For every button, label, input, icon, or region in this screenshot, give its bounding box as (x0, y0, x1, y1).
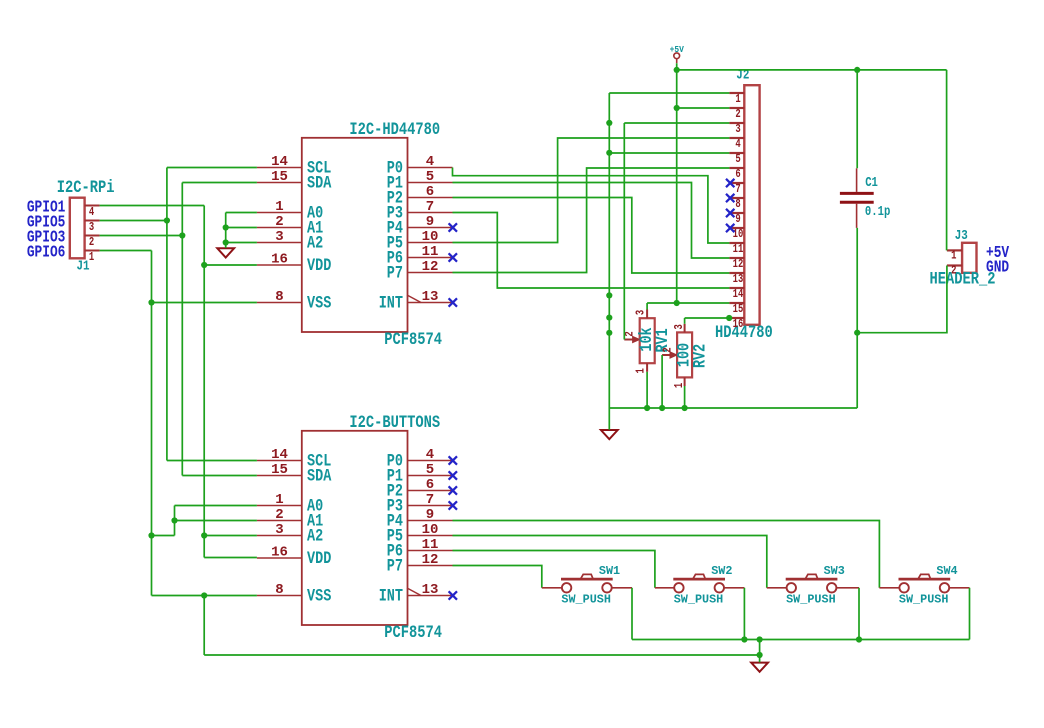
reference SW4 (936, 564, 957, 578)
value PCF8574 (I2C-BUTTONS) (384, 623, 442, 643)
svg-text:VDD: VDD (307, 549, 331, 569)
wire RV1 pin1 to GND rail (646, 372, 648, 408)
svg-text:A2: A2 (307, 233, 323, 253)
junction on GND rail (606, 292, 612, 298)
wire IC1 A0 A1 A2 to ground (226, 213, 257, 248)
reference J2 (736, 68, 749, 84)
pin 3 A2 of I2C-BUTTONS (257, 522, 323, 546)
svg-text:12: 12 (422, 259, 439, 275)
net label GPIO5 (27, 214, 66, 232)
svg-text:SW2: SW2 (711, 564, 732, 578)
pin 16 VDD of I2C-HD44780 (257, 251, 331, 275)
junction VDD at IC1 VDD (201, 262, 207, 268)
value 100 (674, 343, 694, 367)
pin 15 SDA of I2C-BUTTONS (257, 462, 332, 486)
wire GND net: J2 pin1, vertical rail, bottom rail to C1 (609, 93, 857, 430)
pin 6 of J2 (729, 168, 744, 182)
pin 1 A0 of I2C-BUTTONS (257, 492, 323, 516)
pin 1 of RV1 (635, 363, 649, 373)
no-connect X on IC1 P4 (449, 223, 457, 231)
pin 6 P2 of I2C-HD44780 (387, 184, 453, 208)
wire net VDD: J1 pin4 down to IC1 VDD, IC2 A2, IC2 VDD (100, 206, 257, 558)
junction +5V top (674, 67, 680, 73)
wire IC2 P4 to SW4 (453, 521, 880, 588)
svg-text:10: 10 (422, 229, 439, 245)
junction +5V at J2 pin2 (674, 105, 680, 111)
svg-text:1: 1 (635, 368, 649, 373)
svg-text:PCF8574: PCF8574 (384, 330, 442, 350)
junction SDA at J1 pin2 (179, 232, 185, 238)
pin 2 of J2 (729, 108, 744, 122)
svg-text:2: 2 (275, 507, 283, 523)
svg-text:10: 10 (733, 228, 744, 242)
pin 3 of J1 (85, 221, 100, 235)
IC U1 I2C-HD44780 PCF8574 body (302, 138, 408, 332)
no-connect X on IC2 P0 (449, 456, 457, 464)
pin 10 P5 of I2C-HD44780 (387, 229, 453, 253)
svg-text:3: 3 (735, 123, 740, 137)
junction VSS at IC2 VSS (201, 592, 207, 598)
pin 1 of RV2 (673, 377, 687, 388)
svg-text:15: 15 (271, 462, 288, 478)
switch SW2 SW_PUSH (673, 574, 725, 592)
junction on GND rail (pin16 row) (606, 315, 612, 321)
svg-text:1: 1 (951, 249, 956, 263)
svg-text:6: 6 (735, 168, 740, 182)
junction at IC1 A2 (223, 239, 229, 245)
svg-text:14: 14 (271, 154, 288, 170)
svg-text:J1: J1 (77, 258, 90, 274)
pin 4 P0 of I2C-BUTTONS (387, 447, 453, 471)
pin 5 of J2 (729, 153, 744, 167)
pin 10 P5 of I2C-BUTTONS (387, 522, 453, 546)
svg-text:SW_PUSH: SW_PUSH (786, 592, 836, 606)
svg-text:14: 14 (271, 447, 288, 463)
ground symbol (main rail) (601, 430, 618, 439)
junction on GND rail (J3 row) (606, 330, 612, 336)
wire red stubs of SW4 (879, 587, 969, 589)
wire red stubs of SW1 (542, 587, 632, 589)
value SW_PUSH (SW1) (561, 592, 611, 606)
svg-text:I2C-RPi: I2C-RPi (57, 178, 115, 198)
pin 2 of J3 (947, 264, 962, 278)
pin 14 SCL of I2C-HD44780 (257, 154, 331, 178)
pin 3 of RV2 (673, 324, 687, 333)
svg-text:2: 2 (951, 264, 956, 278)
svg-text:I2C-BUTTONS: I2C-BUTTONS (349, 413, 440, 433)
svg-text:7: 7 (426, 492, 434, 508)
junction SW3 at ground rail (856, 636, 862, 642)
svg-text:1: 1 (275, 199, 283, 215)
pin 7 P3 of I2C-BUTTONS (387, 492, 453, 516)
svg-text:6: 6 (426, 477, 434, 493)
no-connect X on IC2 INT (449, 591, 457, 599)
reference RV1 (652, 328, 672, 352)
wire IC1 P7 to J2 pin6 (LCD E) (453, 168, 730, 273)
pin 11 P6 of I2C-HD44780 (387, 244, 453, 268)
svg-text:INT: INT (379, 293, 403, 313)
svg-text:SW1: SW1 (599, 564, 620, 578)
pin 1 of J2 (729, 93, 744, 107)
no-connect X on J2 pin 8 (726, 194, 734, 202)
pin 13 of J2 (729, 273, 744, 287)
svg-text:3: 3 (673, 324, 687, 329)
net label GND at J3 (986, 259, 1009, 277)
power symbol +5V (670, 44, 685, 63)
junction bottom wire at ground stem (757, 652, 763, 658)
svg-text:J3: J3 (955, 228, 968, 244)
junction RV2 wiper at rail (659, 405, 665, 411)
switch SW4 SW_PUSH (899, 574, 951, 592)
switch SW3 SW_PUSH (786, 574, 838, 592)
potentiometer RV2 100 body (677, 332, 692, 377)
wire C1 bottom to GND rail (856, 228, 858, 408)
pin 7 P3 of I2C-HD44780 (387, 199, 453, 223)
pin 16 VDD of I2C-BUTTONS (257, 544, 331, 568)
wire net SCL: J1 pin3 to IC1 SCL and IC2 SCL (100, 168, 257, 461)
svg-text:RV2: RV2 (690, 344, 710, 368)
svg-text:8: 8 (275, 582, 283, 598)
pin 16 of J2 (729, 318, 744, 332)
svg-text:1: 1 (275, 492, 283, 508)
pin 9 P4 of I2C-HD44780 (387, 214, 453, 238)
pin 1 A0 of I2C-HD44780 (257, 199, 323, 223)
svg-text:4: 4 (426, 154, 434, 170)
wire IC2 P7 to SW1 (453, 566, 542, 588)
wire IC1 P2 to J2 pin13 (LCD D6) (453, 198, 730, 274)
pin 8 VSS of I2C-HD44780 (257, 289, 331, 313)
net label +5V at J3 (986, 245, 1009, 263)
svg-text:VSS: VSS (307, 586, 331, 606)
wire +5V net: symbol down to J2 pins 2/15, across to C1 and J3 pin1 (677, 63, 947, 303)
junction +5V at C1 (854, 67, 860, 73)
svg-text:11: 11 (422, 244, 439, 260)
value HEADER_2 (J3) (930, 269, 996, 289)
svg-text:4: 4 (426, 447, 434, 463)
junction at IC1 A1 (223, 224, 229, 230)
wire IC1 P1 to J2 pin12 (LCD D5) (453, 183, 730, 259)
net label GPIO3 (27, 229, 66, 247)
connector J1 I2C-RPi body (70, 198, 85, 259)
svg-text:8: 8 (275, 289, 283, 305)
label I2C-HD44780 (349, 120, 440, 140)
junction GND at J2 pin5 (606, 150, 612, 156)
value PCF8574 (I2C-HD44780) (384, 330, 442, 350)
junction RV1 pin1 at rail (644, 405, 650, 411)
pin 14 SCL of I2C-BUTTONS (257, 447, 331, 471)
no-connect X on IC2 P3 (449, 501, 457, 509)
svg-text:INT: INT (379, 586, 403, 606)
svg-text:P7: P7 (387, 556, 403, 576)
wire RV2 pin1 to GND rail (684, 386, 686, 408)
svg-text:15: 15 (271, 169, 288, 185)
svg-text:SW3: SW3 (824, 564, 845, 578)
wire buttons ground rail (632, 588, 970, 663)
junction ground stem at rail (757, 636, 763, 642)
IC U2 I2C-BUTTONS PCF8574 body (302, 431, 408, 625)
svg-text:16: 16 (733, 318, 744, 332)
label I2C-RPi (J1 value) (57, 178, 115, 198)
wire IC1 P3 to J2 pin14 (LCD D7) (453, 213, 730, 289)
svg-text:3: 3 (89, 221, 94, 235)
reference RV2 (690, 344, 710, 368)
svg-text:6: 6 (426, 184, 434, 200)
svg-text:SW4: SW4 (936, 564, 957, 578)
svg-text:13: 13 (733, 273, 744, 287)
pin 13 INT of I2C-BUTTONS (active-low) (379, 582, 453, 606)
svg-text:13: 13 (422, 289, 439, 305)
junction VDD at IC2 A2 (201, 532, 207, 538)
reference J1 (77, 258, 90, 274)
pin 14 of J2 (729, 288, 744, 302)
pin 2 wiper of RV1 (623, 331, 639, 342)
junction SCL at J1 pin3 (164, 217, 170, 223)
svg-text:PCF8574: PCF8574 (384, 623, 442, 643)
value 0.1p (865, 204, 890, 220)
connector J3 HEADER_2 body (962, 243, 976, 273)
pin 15 of J2 (729, 303, 744, 317)
value HD44780 (J2) (715, 323, 773, 343)
svg-text:9: 9 (426, 507, 434, 523)
wire J2 pin3 to RV1 wiper (LCD V0) (624, 123, 729, 340)
junction VSS at IC2 A1 (171, 517, 177, 523)
value SW_PUSH (SW2) (674, 592, 724, 606)
pin 7 of J2 (729, 183, 744, 197)
wire C1 top to +5V rail (856, 70, 858, 168)
svg-text:SDA: SDA (307, 466, 332, 486)
wire RV2 wiper to GND rail (661, 355, 663, 408)
wire IC2 P5 to SW3 (453, 536, 767, 588)
svg-text:14: 14 (733, 288, 744, 302)
wire red stubs of SW3 (767, 587, 859, 589)
junction VSS jog (148, 532, 154, 538)
pin 1 of J3 (947, 249, 962, 263)
svg-text:1: 1 (735, 93, 740, 107)
pin 4 of J1 (85, 206, 100, 220)
label C1 (865, 175, 878, 191)
svg-text:VDD: VDD (307, 256, 331, 276)
pin 11 P6 of I2C-BUTTONS (387, 537, 453, 561)
junction GND at C1 bottom wire (854, 330, 860, 336)
wire J2 pin15 to RV1 pin3 (647, 303, 729, 310)
pin 8 VSS of I2C-BUTTONS (257, 582, 331, 606)
svg-text:VSS: VSS (307, 293, 331, 313)
pin 12 of J2 (729, 258, 744, 272)
pin 15 SDA of I2C-HD44780 (257, 169, 332, 193)
svg-text:16: 16 (271, 544, 288, 560)
potentiometer RV1 10k body (640, 318, 655, 363)
pin 3 of J2 (729, 123, 744, 137)
junction SW2 at ground rail (741, 636, 747, 642)
wire IC2 P6 to SW2 (453, 551, 655, 588)
svg-text:13: 13 (422, 582, 439, 598)
pin 12 P7 of I2C-HD44780 (387, 259, 453, 283)
pin 9 P4 of I2C-BUTTONS (387, 507, 453, 531)
no-connect X on IC2 P1 (449, 471, 457, 479)
svg-text:3: 3 (635, 310, 649, 315)
svg-text:4: 4 (89, 206, 95, 220)
svg-text:SW_PUSH: SW_PUSH (561, 592, 611, 606)
no-connect X on J2 pin 7 (726, 179, 734, 187)
wire net SDA: J1 pin2 to IC1 SDA and IC2 SDA (100, 183, 257, 476)
svg-text:10: 10 (422, 522, 439, 538)
svg-text:8: 8 (735, 198, 740, 212)
svg-text:2: 2 (623, 331, 637, 336)
no-connect X on IC2 P2 (449, 486, 457, 494)
svg-text:HD44780: HD44780 (715, 323, 773, 343)
pin 3 A2 of I2C-HD44780 (257, 229, 323, 253)
svg-text:1: 1 (89, 251, 94, 265)
svg-text:2: 2 (89, 236, 94, 250)
svg-text:7: 7 (426, 199, 434, 215)
pin 2 wiper of RV2 (661, 347, 677, 358)
value SW_PUSH (SW3) (786, 592, 836, 606)
label I2C-BUTTONS (349, 413, 440, 433)
pin 2 of J1 (85, 236, 100, 250)
pin 9 of J2 (729, 213, 744, 227)
reference SW1 (599, 564, 620, 578)
wire IC1 P0 to J2 pin11 (LCD D4) (453, 168, 730, 244)
pin 4 of J2 (729, 138, 744, 152)
pin 13 INT of I2C-HD44780 (active-low) (379, 289, 453, 313)
capacitor C1 (840, 168, 874, 228)
pin 5 P1 of I2C-HD44780 (387, 169, 453, 193)
no-connect X on J2 pin 9 (726, 209, 734, 217)
pin 10 of J2 (729, 228, 744, 242)
svg-text:15: 15 (733, 303, 744, 317)
svg-text:5: 5 (426, 169, 434, 185)
svg-text:12: 12 (733, 258, 744, 272)
svg-text:11: 11 (733, 243, 744, 257)
junction RV2 pin1 at rail (682, 405, 688, 411)
switch SW1 SW_PUSH (561, 574, 613, 592)
pin 2 A1 of I2C-HD44780 (257, 214, 323, 238)
svg-text:A2: A2 (307, 526, 323, 546)
svg-text:3: 3 (275, 229, 283, 245)
svg-text:+5V: +5V (670, 44, 685, 55)
svg-text:P7: P7 (387, 263, 403, 283)
value 10k (636, 327, 656, 351)
svg-text:SW_PUSH: SW_PUSH (674, 592, 724, 606)
svg-text:16: 16 (271, 251, 288, 267)
svg-text:GND: GND (986, 259, 1009, 277)
svg-text:2: 2 (275, 214, 283, 230)
svg-text:3: 3 (275, 522, 283, 538)
svg-text:SW_PUSH: SW_PUSH (899, 592, 949, 606)
svg-text:5: 5 (735, 153, 740, 167)
junction +5V at J2 pin15 (674, 300, 680, 306)
junction VSS at IC1 VSS (148, 299, 154, 305)
pin 5 P1 of I2C-BUTTONS (387, 462, 453, 486)
pin 1 of J1 (85, 251, 100, 265)
svg-text:2: 2 (735, 108, 740, 122)
svg-text:12: 12 (422, 552, 439, 568)
svg-text:0.1p: 0.1p (865, 204, 890, 220)
svg-text:7: 7 (735, 183, 740, 197)
no-connect X on IC1 INT (449, 298, 457, 306)
svg-text:I2C-HD44780: I2C-HD44780 (349, 120, 440, 140)
wire red stubs of SW2 (655, 587, 745, 589)
reference SW2 (711, 564, 732, 578)
pin 8 of J2 (729, 198, 744, 212)
pin 2 A1 of I2C-BUTTONS (257, 507, 323, 531)
pin 11 of J2 (729, 243, 744, 257)
value SW_PUSH (SW4) (899, 592, 949, 606)
svg-text:SDA: SDA (307, 173, 332, 193)
pin 6 P2 of I2C-BUTTONS (387, 477, 453, 501)
wire IC1 P5 to J2 pin4 (LCD RS) (453, 138, 730, 243)
pin 12 P7 of I2C-BUTTONS (387, 552, 453, 576)
junction at J2 pin16 (726, 315, 732, 321)
svg-text:11: 11 (422, 537, 439, 553)
svg-text:2: 2 (661, 347, 675, 352)
wire net VSS: J1 pin1 down to IC1 VSS, IC2 A0/A1, IC2 VSS, bottom rail (100, 251, 760, 656)
svg-text:C1: C1 (865, 175, 878, 191)
svg-text:4: 4 (735, 138, 741, 152)
svg-text:9: 9 (426, 214, 434, 230)
no-connect X on IC1 P6 (449, 253, 457, 261)
svg-text:GPIO6: GPIO6 (27, 244, 66, 262)
no-connect X on J2 pin 10 (726, 224, 734, 232)
pin 4 P0 of I2C-HD44780 (387, 154, 453, 178)
ground symbol (IC1 address pins) (217, 248, 234, 257)
connector J2 HD44780 body (744, 85, 759, 325)
wire J2 pin16 to RV2 pin3 (685, 318, 730, 324)
junction on GND rail (pin3 row) (606, 120, 612, 126)
net label GPIO6 (27, 244, 66, 262)
svg-text:9: 9 (735, 213, 740, 227)
ground symbol (buttons) (751, 663, 768, 672)
pin 3 of RV1 (635, 310, 649, 319)
net label GPIO1 (27, 199, 66, 217)
reference J3 (955, 228, 968, 244)
svg-text:5: 5 (426, 462, 434, 478)
wire J3 pin2 to GND rail (857, 266, 947, 333)
reference SW3 (824, 564, 845, 578)
